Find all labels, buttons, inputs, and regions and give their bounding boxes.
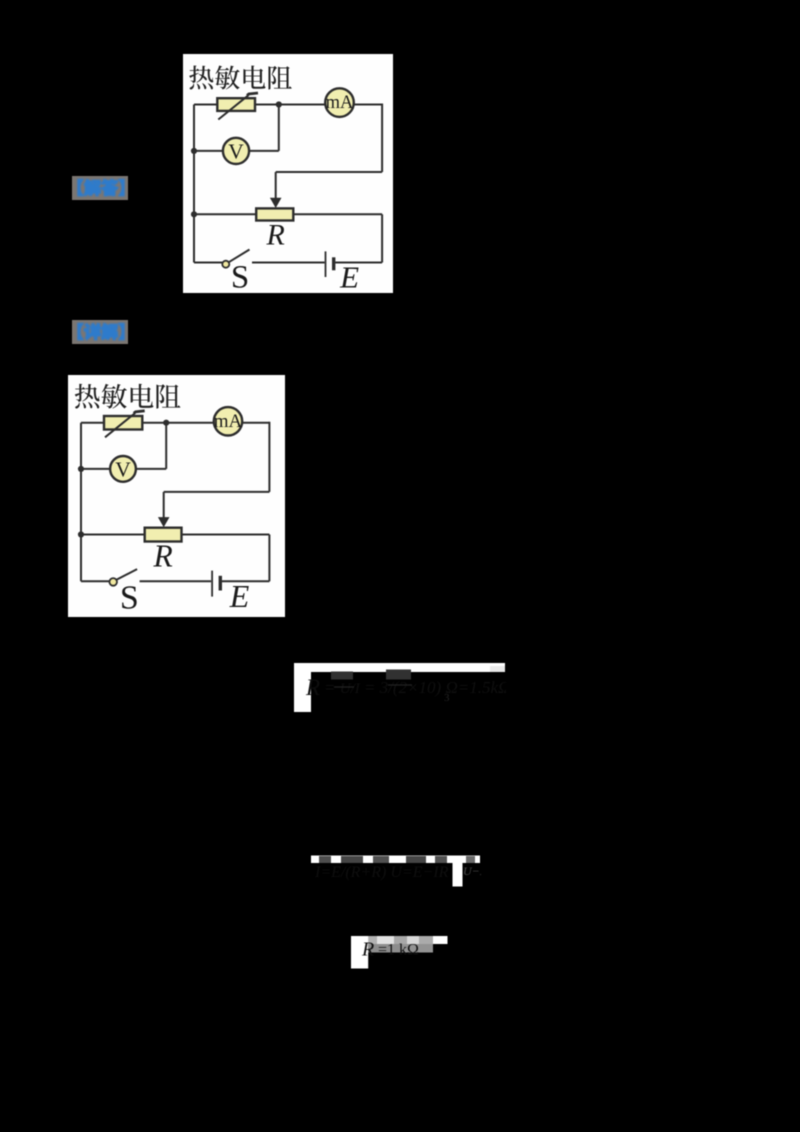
svg-text:E: E bbox=[339, 259, 359, 293]
white strip bbox=[351, 936, 448, 944]
wire mid horizontal bbox=[276, 171, 382, 173]
tag label 2 (blue 【详解】 on gray) bbox=[72, 320, 128, 344]
svg-text:mA: mA bbox=[214, 411, 243, 432]
battery short plate bbox=[332, 257, 335, 270]
junction dot top bbox=[163, 420, 169, 426]
svg-text:I=E/(R+R) U=E−IR: I=E/(R+R) U=E−IR bbox=[314, 864, 449, 881]
wire right vertical lower bbox=[381, 214, 383, 262]
thermistor body bbox=[104, 416, 142, 430]
voltmeter V bbox=[223, 138, 249, 164]
wire R row left bbox=[194, 213, 256, 215]
formula block 3 (inverted equation image) bbox=[351, 936, 448, 969]
glyph band bg bbox=[368, 944, 401, 953]
white panel bbox=[68, 375, 285, 617]
tag label 1 (blue 【解答】 on gray) bbox=[72, 176, 128, 200]
wire V row left bbox=[194, 150, 223, 152]
formula block 2 (inverted equation image) bbox=[311, 855, 481, 888]
circuit figure 1 bbox=[183, 54, 393, 293]
switch lever bbox=[229, 250, 250, 263]
wire junction to mA bbox=[166, 422, 214, 424]
wire right vertical upper bbox=[381, 104, 383, 173]
svg-text:V: V bbox=[115, 457, 131, 481]
svg-text:3: 3 bbox=[444, 692, 450, 704]
svg-text:S: S bbox=[120, 580, 139, 617]
junction dot V row bbox=[191, 148, 197, 154]
wire wiper vertical bbox=[275, 172, 277, 199]
voltmeter V bbox=[110, 456, 136, 482]
wire top thermistor row bbox=[194, 104, 279, 106]
wire bottom right bbox=[222, 580, 270, 582]
thermistor diagonal foot bbox=[134, 411, 145, 414]
svg-text:mA: mA bbox=[326, 93, 354, 113]
svg-text:E: E bbox=[229, 578, 250, 614]
wire right vertical lower bbox=[268, 535, 270, 582]
wire left vertical bbox=[193, 105, 195, 263]
wire bottom mid bbox=[140, 580, 212, 582]
wire bottom left bbox=[81, 580, 110, 582]
wire mA to right bbox=[354, 104, 382, 106]
wire mA to right bbox=[242, 422, 269, 424]
milliammeter mA bbox=[214, 407, 242, 435]
thermistor diagonal bbox=[218, 95, 248, 119]
svg-text:R: R bbox=[361, 939, 374, 961]
wiper arrow head bbox=[270, 198, 282, 208]
white strip right bbox=[463, 856, 481, 864]
white left column bbox=[294, 663, 311, 712]
white left column bbox=[351, 936, 368, 969]
wire V row right bbox=[136, 468, 166, 470]
battery short plate bbox=[219, 576, 222, 591]
wire top thermistor row bbox=[81, 422, 166, 424]
svg-text:U−R: U−R bbox=[463, 864, 481, 878]
white mid column bbox=[453, 856, 463, 887]
svg-text:=1 kΩ: =1 kΩ bbox=[378, 942, 419, 959]
junction dot R row bbox=[78, 531, 84, 537]
wire bottom left bbox=[194, 262, 222, 264]
svg-text:V: V bbox=[228, 139, 244, 163]
glyph top fragment bbox=[386, 670, 411, 680]
wire V row up to junction bbox=[278, 105, 280, 151]
switch lever bbox=[116, 569, 137, 580]
thermistor body bbox=[217, 98, 255, 111]
formula block 1 (inverted equation image) bbox=[294, 663, 506, 713]
glyph top fragment bbox=[331, 672, 353, 680]
wire V row up to junction bbox=[165, 423, 167, 469]
wire right vertical upper bbox=[268, 422, 270, 492]
milliammeter mA bbox=[325, 88, 354, 117]
strip gray end bbox=[490, 666, 505, 672]
battery long plate bbox=[325, 251, 327, 277]
svg-text:R: R bbox=[152, 539, 172, 574]
rheostat body bbox=[145, 528, 182, 542]
svg-text:R: R bbox=[305, 675, 320, 700]
svg-text:S: S bbox=[231, 259, 249, 293]
faint fraction bars bbox=[334, 685, 412, 687]
rheostat body bbox=[256, 208, 293, 220]
battery long plate bbox=[211, 571, 213, 597]
white strip bbox=[294, 663, 505, 672]
wire R row left bbox=[81, 534, 145, 536]
caption 热敏电阻 (thermistor) bbox=[189, 65, 292, 89]
glyph top fragments bbox=[319, 856, 331, 863]
thermistor diagonal foot bbox=[247, 93, 258, 96]
circuit figure 2 bbox=[68, 375, 285, 617]
white strip left bbox=[311, 856, 453, 864]
junction dot R row bbox=[191, 211, 197, 217]
junction dot V row bbox=[78, 466, 84, 472]
wire mid horizontal bbox=[164, 491, 270, 493]
white panel bbox=[183, 54, 393, 293]
wire V row left bbox=[81, 468, 110, 470]
thermistor diagonal bbox=[105, 413, 135, 437]
wire bottom mid bbox=[252, 262, 325, 264]
wire bottom right bbox=[335, 262, 382, 264]
wire R row right bbox=[182, 534, 270, 536]
junction dot top bbox=[276, 101, 282, 107]
wire R row right bbox=[293, 213, 382, 215]
wiper arrow head bbox=[158, 517, 170, 527]
wire left vertical bbox=[80, 423, 82, 582]
svg-text:R: R bbox=[266, 218, 285, 251]
strip gray patches bbox=[368, 936, 377, 944]
wire V row right bbox=[249, 150, 279, 152]
wire wiper vertical bbox=[163, 492, 165, 519]
wire junction to mA bbox=[279, 104, 325, 106]
switch contact bbox=[109, 578, 117, 586]
switch contact bbox=[222, 261, 229, 268]
caption 热敏电阻 (thermistor) bbox=[75, 384, 181, 409]
